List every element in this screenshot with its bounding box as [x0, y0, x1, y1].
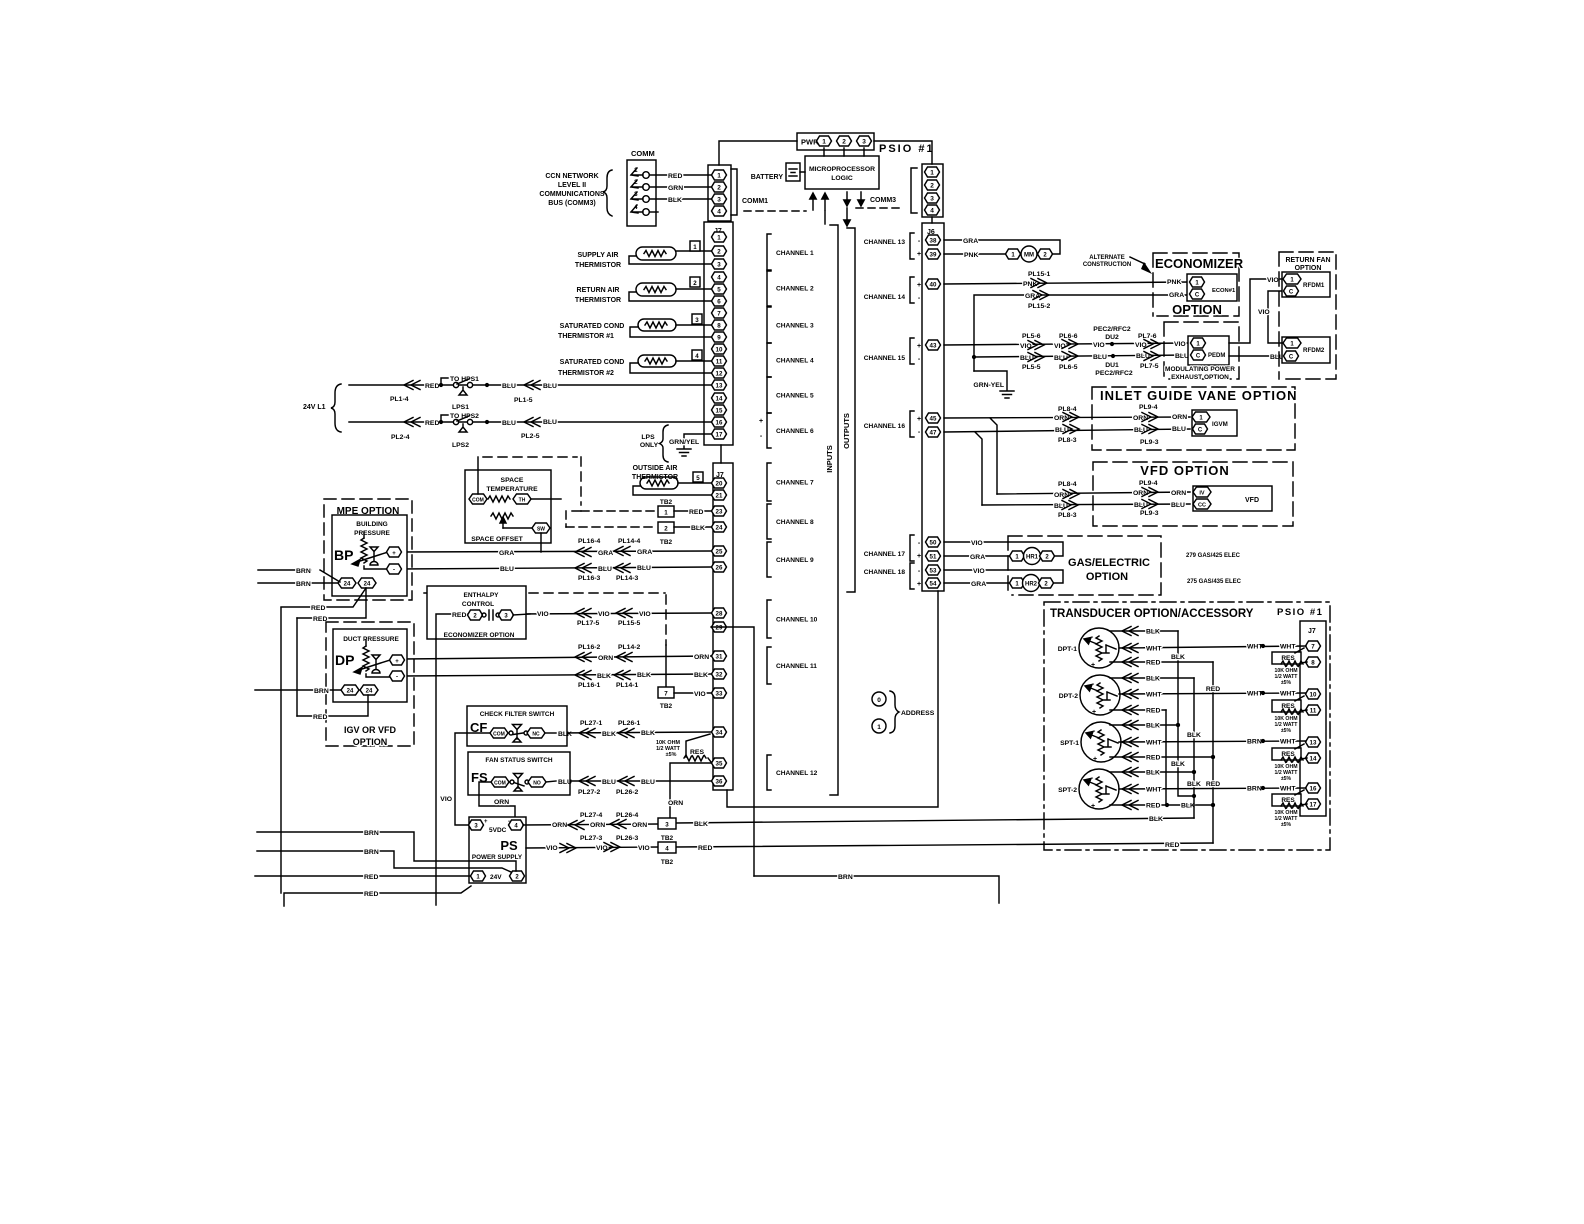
brace LPS only	[660, 425, 669, 462]
svg-text:VFD OPTION: VFD OPTION	[1140, 463, 1229, 478]
channel 16 bracket J6	[864, 411, 921, 437]
J7-1 pin 13	[712, 380, 727, 390]
svg-text:RED: RED	[1146, 660, 1160, 667]
enthalpy control box	[427, 586, 526, 639]
svg-text:3: 3	[695, 317, 699, 324]
svg-text:2: 2	[930, 183, 934, 190]
wire GRN comm2	[650, 185, 711, 192]
svg-text:GRA: GRA	[970, 554, 985, 561]
wire BRN feed b	[257, 849, 511, 872]
svg-text:RED: RED	[1146, 755, 1160, 762]
IGV OR VFD OPTION label	[344, 725, 397, 747]
svg-text:BLK: BLK	[694, 821, 708, 828]
svg-text:VIO: VIO	[1054, 343, 1066, 350]
svg-text:11: 11	[1310, 708, 1317, 715]
MPE option dashed box	[324, 499, 412, 600]
svg-text:GRA: GRA	[637, 549, 652, 556]
svg-text:THERMISTOR #1: THERMISTOR #1	[558, 333, 614, 340]
RFDM1 box	[1282, 272, 1330, 297]
transducer option dash-dot box	[1044, 602, 1330, 850]
J7-2 pin 29	[712, 622, 727, 632]
svg-text:BLU: BLU	[502, 383, 516, 390]
svg-text:PL16-3: PL16-3	[578, 575, 601, 582]
svg-text:CC: CC	[1198, 503, 1206, 509]
RETURN FAN OPTION label	[1285, 257, 1330, 272]
DP 24 terminal b	[360, 685, 378, 695]
svg-text:BATTERY: BATTERY	[751, 174, 784, 181]
RED bus DPT-2	[1165, 710, 1167, 805]
svg-text:29: 29	[716, 625, 723, 632]
svg-text:BLK: BLK	[1146, 723, 1160, 730]
svg-text:CHANNEL 9: CHANNEL 9	[776, 557, 814, 564]
svg-text:HR1: HR1	[1026, 555, 1039, 561]
svg-text:3: 3	[717, 197, 721, 204]
svg-text:PL8-3: PL8-3	[1058, 437, 1077, 444]
ground grn-yel	[677, 449, 691, 456]
J7-2 pin 24	[712, 522, 727, 532]
svg-text:ORN: ORN	[1133, 490, 1148, 497]
SPT-2 RED lead	[1110, 801, 1215, 810]
svg-text:8: 8	[717, 323, 721, 330]
svg-text:+: +	[1091, 803, 1095, 810]
COMM pin 2	[631, 179, 649, 190]
svg-text:BLU: BLU	[1172, 426, 1186, 433]
svg-text:POWER SUPPLY: POWER SUPPLY	[472, 854, 523, 861]
PEDM box	[1188, 336, 1229, 365]
svg-text:WHT: WHT	[1280, 786, 1296, 793]
svg-text:6: 6	[717, 299, 721, 306]
svg-text:RED: RED	[1206, 686, 1220, 693]
J7-1 pin 10	[712, 344, 727, 354]
svg-text:BLK: BLK	[1187, 781, 1201, 788]
supply air thermistor	[575, 241, 711, 269]
wire to inputs bracket	[824, 211, 826, 224]
wire VIO pin43 chain to PEDM	[944, 340, 1190, 351]
J7-1 pin 3	[712, 259, 727, 269]
svg-text:CHECK FILTER SWITCH: CHECK FILTER SWITCH	[480, 711, 555, 718]
J6 pin 53	[926, 565, 941, 575]
svg-text:J7: J7	[1308, 628, 1316, 635]
svg-text:VFD: VFD	[1245, 497, 1259, 504]
svg-text:16: 16	[1310, 786, 1317, 793]
channel 6 polarity	[759, 418, 763, 440]
COMM3 bracket	[911, 168, 917, 213]
svg-text:RFDM2: RFDM2	[1303, 347, 1325, 354]
wire GRA to ECON C	[974, 291, 1190, 372]
svg-text:BLU: BLU	[1054, 503, 1068, 510]
svg-text:32: 32	[716, 672, 723, 679]
duct pressure box	[333, 629, 407, 702]
svg-text:FAN STATUS SWITCH: FAN STATUS SWITCH	[485, 757, 553, 764]
svg-text:PL26-3: PL26-3	[616, 835, 639, 842]
svg-text:CHANNEL 4: CHANNEL 4	[776, 358, 814, 365]
channel 17 bracket J6	[864, 535, 921, 561]
wire GRA pin51 to HR1	[944, 554, 1010, 561]
return fan option dashed box	[1279, 252, 1336, 379]
svg-text:RED: RED	[311, 605, 325, 612]
svg-text:PL15-5: PL15-5	[618, 620, 641, 627]
svg-text:RED: RED	[425, 420, 439, 427]
inlet guide vane dashed box	[1092, 387, 1295, 450]
svg-text:WHT: WHT	[1280, 644, 1296, 651]
svg-text:CHANNEL 15: CHANNEL 15	[864, 355, 906, 362]
svg-text:BRN: BRN	[296, 568, 311, 575]
svg-text:2: 2	[717, 185, 721, 192]
svg-text:-: -	[918, 429, 921, 436]
svg-text:CHANNEL 12: CHANNEL 12	[776, 770, 818, 777]
svg-text:PL9-3: PL9-3	[1140, 510, 1159, 517]
svg-text:4: 4	[695, 353, 699, 360]
J6 pin 43	[926, 340, 941, 350]
svg-text:PS: PS	[500, 838, 518, 853]
J7-1 pin 16	[712, 417, 727, 427]
svg-text:PL9-4: PL9-4	[1139, 404, 1158, 411]
space offset potentiometer	[471, 513, 550, 543]
svg-text:OPTION: OPTION	[1086, 571, 1128, 583]
PS 5VDC terminals	[469, 819, 524, 834]
J7 connector block 2	[713, 463, 733, 790]
DP minus terminal	[390, 671, 405, 681]
wire to outputs bracket with arrow	[844, 208, 850, 226]
J7-2 pin 33	[712, 688, 727, 698]
svg-text:54: 54	[930, 581, 937, 588]
svg-text:BLK: BLK	[641, 730, 655, 737]
J7 connector block 1	[704, 222, 733, 445]
J7-1 pin 17	[712, 429, 727, 439]
svg-text:RED: RED	[689, 509, 703, 516]
J7-1 pin 7	[712, 308, 727, 318]
HR1 relay	[1010, 548, 1055, 565]
svg-text:WHT: WHT	[1146, 787, 1162, 794]
svg-text:BLK: BLK	[668, 197, 682, 204]
svg-text:PL17-5: PL17-5	[577, 620, 600, 627]
svg-text:LPS1: LPS1	[452, 404, 469, 411]
wire BLU to pin36	[556, 777, 711, 787]
wire GRA to pin25	[399, 547, 711, 558]
svg-text:C: C	[1195, 293, 1200, 299]
svg-text:HR2: HR2	[1025, 582, 1038, 588]
ground wire grn-yel mid	[973, 371, 1014, 398]
J7-right pin 17	[1306, 799, 1321, 809]
svg-text:RED: RED	[364, 891, 378, 898]
svg-text:ORN: ORN	[1172, 414, 1187, 421]
svg-text:ALTERNATE: ALTERNATE	[1089, 255, 1124, 261]
wire BLU chain to PEDM C	[972, 352, 1190, 363]
label LPS ONLY	[640, 434, 659, 449]
svg-text:BLU: BLU	[641, 779, 655, 786]
J7-2 pin 21	[712, 490, 727, 500]
svg-text:PEC2/RFC2: PEC2/RFC2	[1093, 326, 1131, 333]
DP plus terminal	[390, 655, 405, 665]
transducer SPT-2	[1058, 769, 1119, 810]
svg-text:BLU: BLU	[1134, 427, 1148, 434]
J6 pin 45	[926, 413, 941, 423]
svg-text:BLK: BLK	[1149, 816, 1163, 823]
svg-text:275 GAS/435 ELEC: 275 GAS/435 ELEC	[1187, 579, 1242, 585]
wire BRN bottom run	[754, 874, 999, 903]
modulating power exhaust dashed box	[1164, 322, 1239, 379]
TB2 terminal 1 net	[581, 499, 711, 517]
wire pin29 down	[711, 627, 754, 876]
svg-text:IV: IV	[1199, 491, 1205, 497]
svg-text:ORN: ORN	[694, 654, 709, 661]
label 10K OHM 1/2 WATT	[656, 740, 681, 758]
BLK bus 2	[1187, 678, 1201, 818]
svg-text:CHANNEL 17: CHANNEL 17	[864, 551, 906, 558]
svg-text:7: 7	[1311, 644, 1315, 651]
svg-text:PL16-4: PL16-4	[578, 538, 601, 545]
svg-text:PL9-3: PL9-3	[1140, 439, 1159, 446]
svg-text:2: 2	[842, 139, 846, 146]
svg-text:3: 3	[665, 822, 669, 829]
svg-text:GAS/ELECTRIC: GAS/ELECTRIC	[1068, 557, 1150, 569]
svg-text:3: 3	[930, 196, 934, 203]
SPT-2 WHT wire to pin 16	[1119, 785, 1306, 794]
svg-text:24: 24	[364, 582, 371, 588]
svg-text:BRN: BRN	[1247, 739, 1262, 746]
channel 15 bracket J6	[864, 338, 921, 364]
channel 14 bracket J6	[864, 277, 921, 303]
GAS/ELECTRIC OPTION title	[1068, 557, 1150, 583]
TB2 terminal 7 net to pin33	[658, 645, 711, 710]
TB2 terminal 4	[658, 842, 676, 866]
svg-text:COM: COM	[472, 498, 484, 504]
IGVM box	[1192, 410, 1237, 436]
channel 12 bracket	[767, 755, 818, 790]
wire BLU to pin26	[399, 564, 711, 574]
svg-text:PSIO #1: PSIO #1	[879, 143, 935, 155]
svg-text:-: -	[396, 675, 398, 681]
svg-text:ORN: ORN	[590, 822, 605, 829]
VFD option dashed box	[1093, 462, 1293, 526]
logic output arrow b	[858, 192, 864, 206]
svg-text:BLU: BLU	[1171, 502, 1185, 509]
svg-text:C: C	[1196, 354, 1201, 360]
svg-text:BLU: BLU	[500, 566, 514, 573]
svg-text:+: +	[917, 553, 921, 560]
wire 24V to pin16	[349, 413, 711, 432]
svg-text:PL5-6: PL5-6	[1022, 333, 1041, 340]
BP plus terminal	[387, 547, 402, 557]
svg-text:MM: MM	[1024, 253, 1034, 259]
svg-text:16: 16	[716, 420, 723, 427]
svg-text:LOGIC: LOGIC	[831, 175, 853, 182]
svg-text:LEVEL II: LEVEL II	[558, 182, 586, 189]
BLK bus 1	[1171, 631, 1196, 798]
COMM3 connector	[922, 164, 943, 217]
svg-text:RED: RED	[698, 845, 712, 852]
wire pin39 PNK to MM	[944, 252, 1006, 259]
svg-text:WHT: WHT	[1280, 739, 1296, 746]
svg-text:C: C	[1289, 355, 1294, 361]
svg-text:±5%: ±5%	[1281, 728, 1292, 734]
svg-text:BLK: BLK	[597, 673, 611, 680]
svg-text:20: 20	[716, 481, 723, 488]
wire SW down to GRA	[540, 533, 542, 552]
svg-text:10: 10	[1310, 692, 1317, 699]
svg-text:+: +	[392, 551, 396, 557]
svg-text:ORN: ORN	[1133, 415, 1148, 422]
svg-text:+: +	[1091, 662, 1095, 669]
svg-text:31: 31	[716, 654, 723, 661]
svg-text:RED: RED	[1146, 708, 1160, 715]
svg-text:TB2: TB2	[660, 703, 673, 710]
svg-text:THERMISTOR #2: THERMISTOR #2	[558, 370, 614, 377]
J7-1 pin 4	[712, 272, 727, 282]
J7-2 pin 26	[712, 562, 727, 572]
label DU1 PEC2/RFC2	[1095, 362, 1133, 377]
svg-text:-: -	[918, 568, 921, 575]
J7 connector right	[1300, 621, 1326, 816]
J7-1 pin 9	[712, 332, 727, 342]
svg-text:CHANNEL 18: CHANNEL 18	[864, 569, 906, 576]
svg-text:PEDM: PEDM	[1208, 353, 1225, 359]
svg-text:BUS (COMM3): BUS (COMM3)	[548, 200, 595, 207]
svg-text:BLK: BLK	[1181, 803, 1195, 810]
COMM pin 1	[631, 167, 649, 178]
return air thermistor	[575, 277, 711, 304]
svg-text:PL6-6: PL6-6	[1059, 333, 1078, 340]
svg-text:TH: TH	[519, 498, 526, 504]
svg-text:BLK: BLK	[691, 525, 705, 532]
wire PNK pin40 to ECON	[944, 279, 1190, 289]
svg-text:IGVM: IGVM	[1212, 421, 1228, 428]
wire RFDM1C to RFDM2-1	[1258, 291, 1284, 343]
svg-text:BLK: BLK	[637, 672, 651, 679]
space temp TH hex	[513, 494, 531, 504]
svg-text:WHT: WHT	[1247, 644, 1263, 651]
svg-text:CCN NETWORK: CCN NETWORK	[545, 173, 598, 180]
svg-text:BRN: BRN	[314, 688, 329, 695]
resistor RES 2 (10K ohm)	[1272, 696, 1307, 734]
channel 8 bracket	[767, 504, 814, 539]
svg-text:279 GAS/425 ELEC: 279 GAS/425 ELEC	[1186, 553, 1241, 559]
svg-text:CHANNEL 14: CHANNEL 14	[864, 294, 906, 301]
svg-text:3: 3	[717, 262, 721, 269]
HR2 relay	[1010, 575, 1054, 592]
svg-text:+: +	[917, 416, 921, 423]
svg-text:+: +	[917, 343, 921, 350]
svg-text:PNK: PNK	[964, 252, 978, 259]
J6 pin 50	[926, 537, 941, 547]
DP 24 terminal a	[341, 685, 359, 695]
svg-text:PL8-3: PL8-3	[1058, 512, 1077, 519]
svg-text:SATURATED COND: SATURATED COND	[560, 359, 625, 366]
svg-text:PL7-5: PL7-5	[1140, 363, 1159, 370]
svg-text:4: 4	[717, 275, 721, 282]
wire BRN to BP	[258, 568, 340, 582]
svg-text:1: 1	[717, 235, 721, 242]
svg-text:TRANSDUCER OPTION/ACCESSORY: TRANSDUCER OPTION/ACCESSORY	[1050, 608, 1254, 620]
svg-text:WHT: WHT	[1247, 691, 1263, 698]
svg-text:BLU: BLU	[502, 420, 516, 427]
svg-text:PL27-3: PL27-3	[580, 835, 603, 842]
svg-text:SW: SW	[537, 527, 545, 533]
svg-text:-: -	[918, 356, 921, 363]
svg-text:-: -	[1091, 775, 1094, 782]
wire RED b	[297, 588, 366, 623]
IGV or VFD dashed box	[326, 622, 414, 746]
wire 24V to pin13	[349, 376, 711, 395]
svg-text:VIO: VIO	[1267, 277, 1279, 284]
J7-2 pin 32	[712, 669, 727, 679]
check filter switch box	[467, 706, 567, 746]
svg-text:GRN-YEL: GRN-YEL	[973, 382, 1004, 389]
svg-text:WHT: WHT	[1146, 646, 1162, 653]
svg-text:12: 12	[716, 371, 723, 378]
svg-text:0: 0	[877, 697, 881, 704]
svg-text:ORN: ORN	[632, 822, 647, 829]
OUTPUTS bracket	[842, 228, 855, 592]
svg-text:PL14-2: PL14-2	[618, 644, 641, 651]
INPUTS bracket	[825, 225, 838, 795]
J6 pin 47	[926, 427, 941, 437]
svg-text:PL27-1: PL27-1	[580, 720, 603, 727]
svg-text:±5%: ±5%	[1281, 822, 1292, 828]
svg-text:SATURATED COND: SATURATED COND	[560, 323, 625, 330]
svg-text:5: 5	[717, 287, 721, 294]
svg-text:ONLY: ONLY	[640, 442, 659, 449]
label modulating power exhaust option	[1165, 366, 1235, 381]
address circle 1	[872, 719, 886, 733]
svg-text:-: -	[1091, 634, 1094, 641]
svg-text:53: 53	[930, 568, 937, 575]
svg-text:36: 36	[716, 779, 723, 786]
VFD box	[1193, 486, 1272, 511]
BP 24 terminal a	[338, 578, 356, 588]
resistor RES 1 (10K ohm)	[1272, 648, 1307, 686]
J7-1 pin 8	[712, 320, 727, 330]
comm1 dashed net	[744, 210, 806, 212]
svg-text:+: +	[759, 418, 763, 425]
svg-text:OPTION: OPTION	[353, 737, 388, 747]
svg-text:-: -	[1092, 681, 1095, 688]
svg-text:COM: COM	[493, 732, 505, 738]
space temp resistor	[488, 496, 510, 502]
svg-text:BLU: BLU	[598, 566, 612, 573]
svg-text:VIO: VIO	[639, 611, 651, 618]
svg-text:TO HPS1: TO HPS1	[450, 376, 479, 383]
svg-text:1: 1	[877, 724, 881, 731]
svg-text:10: 10	[716, 347, 723, 354]
svg-text:DPT-2: DPT-2	[1059, 693, 1078, 700]
svg-text:+: +	[917, 251, 921, 258]
MM relay	[1006, 246, 1053, 262]
svg-text:BUILDING: BUILDING	[356, 521, 387, 528]
enthalpy RED wire elbow	[436, 612, 468, 639]
svg-text:PL26-1: PL26-1	[618, 720, 641, 727]
svg-text:1: 1	[664, 510, 668, 517]
svg-text:PL8-4: PL8-4	[1058, 481, 1077, 488]
svg-text:COM: COM	[494, 781, 506, 787]
svg-text:40: 40	[930, 282, 937, 289]
wire RED to DP24b	[297, 695, 368, 721]
svg-text:COMMUNICATIONS: COMMUNICATIONS	[539, 191, 605, 198]
wire BLK to pin34	[556, 729, 711, 739]
wire RED comm1	[650, 173, 711, 180]
svg-text:BLU: BLU	[1093, 354, 1107, 361]
svg-text:VIO: VIO	[537, 611, 549, 618]
svg-text:RETURN AIR: RETURN AIR	[577, 287, 620, 294]
svg-text:EXHAUST OPTION: EXHAUST OPTION	[1171, 374, 1229, 381]
svg-text:3: 3	[862, 139, 866, 146]
COMM1 connector on PSIO	[708, 165, 731, 221]
PWR box	[797, 133, 874, 150]
svg-text:PL15-2: PL15-2	[1028, 303, 1051, 310]
svg-text:BRN: BRN	[364, 849, 379, 856]
dashed outline space temp area	[483, 457, 581, 511]
wire ORN to pin31	[403, 653, 711, 663]
